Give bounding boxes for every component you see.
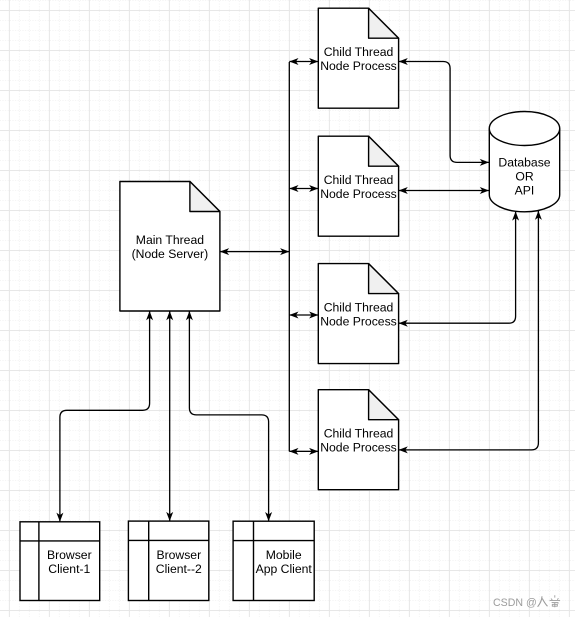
svg-text:Client-1: Client-1 bbox=[48, 562, 90, 576]
watermark CSDN bbox=[493, 595, 560, 609]
wire arrow Child Thread 1 to Database elbow bbox=[399, 62, 489, 163]
node Child Thread 4 document shape bbox=[318, 390, 398, 490]
svg-text:App Client: App Client bbox=[256, 562, 313, 576]
wire arrow Main Thread to trunk bbox=[220, 251, 289, 253]
wire arrow Main Thread to Browser Client--2 bbox=[169, 311, 171, 521]
wire arrow Child Thread 3 to Database bottom elbow bbox=[399, 211, 516, 323]
svg-text:Node Process: Node Process bbox=[320, 315, 397, 329]
svg-text:Browser: Browser bbox=[156, 548, 201, 562]
wire arrow trunk to Child Thread 2 bbox=[289, 188, 318, 190]
wire arrow Child Thread 2 to Database bbox=[399, 190, 489, 192]
svg-text:CSDN @: CSDN @ bbox=[493, 597, 537, 609]
node Main Thread document shape bbox=[120, 182, 220, 312]
node Child Thread 3 document shape bbox=[318, 264, 398, 364]
svg-text:Child Thread: Child Thread bbox=[324, 173, 394, 187]
wire trunk vertical bus x=289 bbox=[288, 62, 290, 451]
svg-text:OR: OR bbox=[515, 170, 533, 184]
svg-text:Node Process: Node Process bbox=[320, 59, 397, 73]
wire arrow Main Thread to Browser Client-1 elbow bbox=[60, 311, 150, 522]
svg-text:Node Process: Node Process bbox=[320, 187, 397, 201]
svg-text:Client--2: Client--2 bbox=[156, 562, 202, 576]
node Child Thread 1 document shape bbox=[318, 8, 398, 108]
svg-text:Child Thread: Child Thread bbox=[324, 427, 394, 441]
svg-text:Main Thread: Main Thread bbox=[136, 233, 204, 247]
node Browser Client--2 window shape bbox=[128, 521, 208, 600]
svg-text:Browser: Browser bbox=[47, 548, 92, 562]
svg-text:Child Thread: Child Thread bbox=[324, 45, 394, 59]
wire arrow Child Thread 4 to Database bottom elbow bbox=[399, 211, 539, 450]
wire arrow trunk to Child Thread 4 bbox=[289, 450, 318, 452]
glyph di bbox=[550, 595, 561, 607]
node Browser Client-1 window shape bbox=[20, 522, 100, 601]
node Mobile App Client window shape bbox=[233, 521, 314, 600]
wire arrow trunk to Child Thread 1 bbox=[289, 61, 318, 63]
svg-text:Database: Database bbox=[498, 156, 550, 170]
svg-text:Child Thread: Child Thread bbox=[324, 301, 394, 315]
svg-text:API: API bbox=[515, 184, 535, 198]
svg-text:Mobile: Mobile bbox=[266, 548, 302, 562]
wire arrow Main Thread to Mobile App Client elbow bbox=[189, 311, 268, 521]
svg-text:(Node Server): (Node Server) bbox=[132, 247, 209, 261]
wire arrow trunk to Child Thread 3 bbox=[289, 314, 318, 316]
node Database cylinder bbox=[489, 112, 559, 212]
node Child Thread 2 document shape bbox=[318, 136, 398, 236]
svg-text:Node Process: Node Process bbox=[320, 441, 397, 455]
glyph ren bbox=[538, 596, 548, 607]
